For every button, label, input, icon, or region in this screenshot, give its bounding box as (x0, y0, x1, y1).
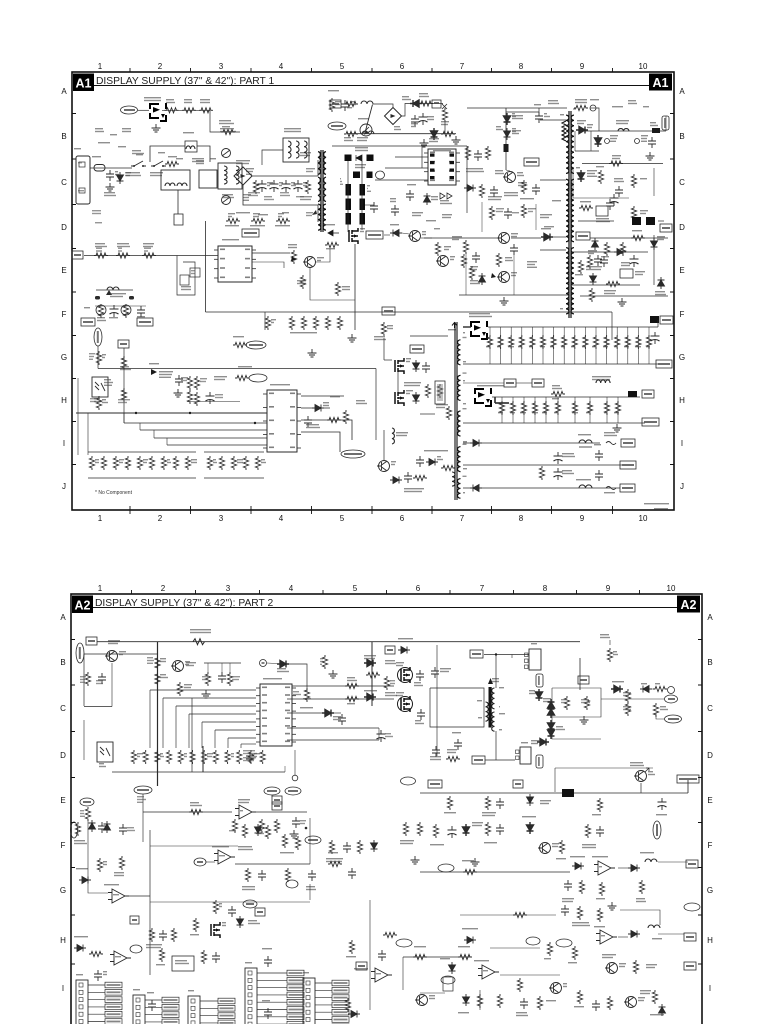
resistor R386 (458, 954, 472, 959)
wire (585, 130, 666, 132)
wire (611, 312, 613, 340)
ferrite bead FB801 (504, 144, 509, 152)
wire (202, 746, 204, 772)
wire (309, 884, 311, 900)
schematic frame A2 (71, 594, 702, 1024)
resistor (202, 750, 207, 764)
relay coil (186, 146, 195, 149)
diode D804b (431, 128, 438, 140)
LF803 coil a (224, 166, 227, 184)
svg-text:C: C (679, 178, 685, 187)
wire (317, 205, 319, 222)
capacitor C345 (159, 930, 167, 941)
resistor (437, 384, 442, 398)
circled resistor R631 (121, 305, 131, 315)
capacitor C631 (137, 306, 145, 317)
capacitor CB1 (411, 115, 419, 126)
transistor Q302 (107, 651, 118, 662)
MOSFET Q607 (395, 390, 404, 406)
svg-text:F: F (61, 841, 66, 850)
resistor (653, 703, 658, 717)
svg-text:G: G (707, 886, 713, 895)
op-amp IC701b (110, 951, 131, 965)
resistor (521, 180, 526, 194)
capacitor C622 (472, 252, 480, 263)
wire (555, 767, 653, 769)
ground (106, 183, 115, 191)
wire (397, 372, 399, 392)
bridge rectifier DB801 (234, 167, 252, 185)
regulator IC802 (596, 206, 608, 216)
wire (123, 413, 125, 423)
capacitor C661 (304, 416, 312, 427)
transformer T801 (321, 150, 323, 232)
resistor (185, 456, 190, 470)
node VCC-9N2 (246, 341, 266, 349)
resistor (625, 702, 630, 716)
node AB9F (438, 864, 454, 872)
inductor L605 (596, 380, 610, 383)
node PB2 (305, 836, 321, 844)
svg-text:F: F (708, 841, 713, 850)
wire (265, 311, 612, 313)
bus (590, 237, 668, 239)
node AB9F2 (684, 903, 700, 911)
capacitor C352 (308, 870, 316, 881)
resistor (572, 946, 577, 960)
capacitor C305 (218, 672, 226, 683)
svg-text:* No Component: * No Component (95, 490, 133, 496)
svg-text:3: 3 (219, 514, 224, 523)
inductor L603 (452, 472, 455, 486)
resistor (101, 456, 106, 470)
pad left (95, 296, 100, 300)
resistor (532, 401, 537, 415)
ground (202, 690, 211, 698)
diode L0s (640, 686, 652, 693)
bank wire (627, 327, 629, 364)
wire (579, 658, 581, 690)
ground (471, 858, 480, 866)
resistor (121, 356, 126, 370)
resistor R819b (344, 101, 358, 106)
capacitor C/BB (432, 746, 440, 757)
ground (452, 136, 461, 144)
resistor (300, 275, 305, 289)
wire (204, 451, 264, 453)
resistor (598, 170, 603, 184)
ground (308, 349, 317, 357)
wire (215, 729, 256, 731)
svg-text:E: E (60, 796, 65, 805)
title block A2 (72, 596, 93, 614)
wire (463, 464, 622, 466)
diode D307 (398, 647, 410, 654)
inductor LY5 coil (107, 287, 119, 290)
capacitor C625 (594, 255, 602, 266)
capacitor C830 (474, 150, 482, 161)
capacitor C92 (431, 667, 439, 678)
pin numbers T803 (463, 332, 465, 333)
node B (286, 880, 298, 888)
drain wire (354, 244, 356, 330)
transistor Q705 (626, 997, 637, 1008)
resistor (274, 819, 279, 833)
wire (488, 326, 658, 328)
resistor R805 (182, 108, 196, 113)
resistor R613 (276, 218, 290, 223)
optocoupler PC601 (92, 377, 108, 397)
pad (628, 391, 637, 397)
wire (201, 722, 203, 748)
wire (252, 175, 318, 177)
resistor (597, 908, 602, 922)
transistor Q706 (417, 995, 428, 1006)
svg-text:6: 6 (416, 584, 421, 593)
net B1.1 (410, 345, 424, 353)
wire (271, 795, 273, 797)
resistor (289, 316, 294, 330)
wire (210, 110, 240, 132)
C8.2 box (435, 381, 445, 404)
resistor (149, 928, 154, 942)
labels top-left block (95, 128, 103, 129)
diode D332 (449, 962, 456, 974)
bank wire (512, 397, 514, 423)
diode D806 (464, 185, 476, 192)
svg-text:7: 7 (460, 514, 465, 523)
diode D330 (628, 931, 640, 938)
zener ZD840 (595, 135, 602, 147)
net PA (562, 789, 574, 797)
wire (596, 108, 599, 131)
labels below ICE area (412, 212, 423, 213)
bank wire (501, 397, 503, 423)
bank wire (617, 397, 619, 423)
resistor (194, 376, 199, 390)
wire (252, 262, 284, 268)
resistor (593, 335, 598, 349)
C10b pins (516, 750, 520, 754)
node VCC-ON vertical (94, 328, 102, 346)
net BONE1 (137, 318, 153, 326)
wire (150, 901, 310, 903)
wire (365, 204, 374, 206)
node BB (376, 171, 385, 179)
capacitor C/2B3 (246, 752, 254, 763)
svg-text:I: I (709, 984, 711, 993)
switch SW1a (131, 161, 146, 166)
wire (420, 792, 688, 794)
wire (256, 811, 307, 813)
inductor L309 (579, 485, 592, 488)
svg-text:8: 8 (543, 584, 548, 593)
wire (430, 688, 484, 727)
ground (613, 424, 622, 432)
resistor (325, 316, 330, 330)
capacitor CG17 (264, 1008, 272, 1019)
resistor (260, 750, 265, 764)
svg-text:10: 10 (667, 584, 676, 593)
wire (163, 697, 256, 699)
bank wire (563, 327, 565, 364)
resistor (295, 836, 300, 850)
bottom circle (292, 775, 298, 781)
C10 pins (525, 653, 529, 657)
wire (665, 116, 667, 131)
resistor (190, 750, 195, 764)
net B1 (86, 637, 97, 645)
wire (97, 641, 580, 643)
svg-text:D: D (679, 223, 685, 232)
wire (310, 268, 355, 300)
resistor (125, 456, 130, 470)
net +B (118, 340, 129, 348)
wire (123, 348, 125, 423)
resistor (337, 316, 342, 330)
transistor Q810 (505, 172, 516, 183)
rotated labels (340, 178, 341, 179)
net G (130, 916, 139, 924)
resistor (119, 856, 124, 870)
svg-text:H: H (707, 936, 713, 945)
wire (687, 780, 689, 793)
wire (611, 688, 623, 690)
wire (485, 759, 515, 761)
capacitor C831 (490, 186, 498, 197)
svg-text:3: 3 (226, 584, 231, 593)
diode B4G2BB (364, 694, 376, 701)
thermistor TH801 (222, 149, 231, 158)
resistor R385 (413, 954, 427, 959)
arrow in Q204 (645, 768, 649, 772)
wire (202, 721, 256, 723)
wire (657, 320, 659, 327)
resistor (636, 335, 641, 349)
diode B4G16 (277, 661, 289, 668)
resistor R340b (189, 809, 203, 814)
resistor (178, 750, 183, 764)
capacitor C356 (596, 826, 604, 837)
wire (177, 190, 179, 214)
bank wire (574, 327, 576, 364)
wire (572, 284, 640, 286)
capacitor C623 (510, 244, 518, 255)
resistor (227, 672, 232, 686)
wire (214, 730, 216, 748)
resistor (577, 990, 582, 1004)
connector C10 top (529, 649, 541, 670)
transistor Q622 (410, 231, 421, 242)
wire (540, 422, 645, 424)
MOSFET CR204 (475, 388, 491, 406)
capacitor C/BY (377, 730, 386, 742)
resistor (539, 466, 544, 480)
net -12VA (620, 484, 635, 492)
box Q7b1 (172, 956, 194, 971)
node VL7 (328, 122, 346, 130)
test point circle (605, 139, 610, 144)
diode D628 (658, 277, 665, 289)
svg-text:4: 4 (289, 584, 294, 593)
wire (506, 170, 510, 171)
node 9REF3 (556, 939, 572, 947)
svg-text:G: G (679, 353, 685, 362)
bank wire (489, 327, 491, 364)
rail (578, 220, 614, 222)
resistor R621 (325, 242, 339, 247)
resistor (433, 824, 438, 838)
connector CN5_1 (188, 996, 200, 1024)
diode D640 (151, 369, 157, 375)
diode D606 (312, 405, 324, 412)
wire (347, 133, 456, 135)
net 21VB (660, 316, 673, 324)
wire (553, 236, 566, 238)
transformer T802 (569, 111, 571, 318)
wire (206, 311, 266, 313)
svg-text:8: 8 (519, 514, 524, 523)
wire (460, 914, 556, 916)
MOSFET Q304 circled (398, 668, 413, 683)
resistor R382 (513, 912, 527, 917)
capacitor C359 (520, 998, 528, 1009)
svg-text:3: 3 (219, 62, 224, 71)
node ACC-9N (76, 643, 84, 663)
MOSFET Q305 sym (401, 696, 410, 712)
svg-text:A: A (61, 87, 67, 96)
svg-text:D: D (707, 751, 713, 760)
transistor Q303 (173, 661, 184, 672)
diode BaG2H6 (611, 686, 623, 693)
node VREF2 (264, 787, 280, 795)
diode B4G2B (364, 660, 376, 667)
pin numbers (560, 114, 564, 115)
resistor (245, 868, 250, 882)
wire (153, 430, 155, 438)
svg-text:2: 2 (158, 62, 163, 71)
wire (207, 663, 209, 672)
resistor (143, 750, 148, 764)
svg-text:J: J (680, 482, 684, 491)
resistor (572, 335, 577, 349)
net MH3 (428, 780, 442, 788)
resistor (579, 880, 584, 894)
resistor (201, 950, 206, 964)
wire (150, 689, 256, 691)
diode D840 (576, 127, 588, 134)
resistor (469, 266, 474, 280)
wire (383, 338, 385, 360)
LY5 labels (106, 290, 112, 295)
wire (535, 204, 537, 230)
resistor (85, 672, 90, 686)
wire (287, 712, 322, 714)
resistor (487, 335, 492, 349)
wire (573, 168, 629, 198)
resistor (149, 456, 154, 470)
capacitor C819 (341, 100, 349, 111)
resistor (521, 204, 526, 218)
op-amp IC704b (371, 968, 392, 982)
wire (479, 990, 481, 1010)
node VCC-9N (341, 450, 365, 458)
wire (189, 713, 256, 715)
labels above mains row (136, 154, 143, 155)
capacitor C358 (561, 905, 569, 916)
resistor R821b (344, 131, 358, 136)
svg-text:2: 2 (161, 584, 166, 593)
wire (262, 150, 283, 165)
capacitor C298 (264, 956, 272, 967)
resistor (207, 456, 212, 470)
resistor (477, 994, 482, 1008)
net b2 (385, 646, 395, 654)
IC pin pads (430, 154, 435, 157)
diode D/B2 (536, 689, 543, 701)
svg-text:8: 8 (519, 62, 524, 71)
wire (229, 663, 231, 672)
resistor (253, 180, 258, 194)
wire (187, 401, 240, 403)
border oval (71, 822, 78, 838)
resistor (232, 819, 237, 833)
wire (490, 947, 540, 949)
diode D335 (348, 1011, 360, 1018)
coil CD-1.5uH (592, 376, 611, 377)
wire (228, 737, 256, 739)
capacitor CB2 (419, 113, 428, 125)
MOSFET Q801 (150, 103, 166, 121)
node C8 (243, 900, 257, 908)
svg-text:C: C (707, 704, 713, 713)
resistor R634b (606, 281, 620, 286)
diode D322 (79, 877, 91, 884)
wire (540, 119, 566, 121)
svg-text:B: B (61, 132, 66, 141)
resistor (447, 796, 452, 810)
diode D803b (410, 100, 422, 107)
wire (361, 161, 363, 230)
wire (111, 663, 113, 707)
schematic frame A1 (72, 72, 674, 510)
wire (500, 974, 560, 976)
resistor R807 (165, 161, 179, 166)
resistor (255, 456, 260, 470)
resistor (463, 240, 468, 254)
wire (658, 933, 684, 935)
resistor R601 (94, 253, 108, 258)
wire (511, 655, 513, 659)
wire (375, 369, 377, 441)
resistor (485, 796, 490, 810)
svg-text:6: 6 (400, 514, 405, 523)
resistor (465, 146, 470, 160)
wire (301, 420, 352, 440)
svg-text:E: E (679, 266, 684, 275)
resistor (237, 750, 242, 764)
rail (575, 150, 599, 152)
resistor (620, 242, 625, 256)
resistor W1 (366, 672, 380, 677)
resistor (285, 868, 290, 882)
wire (97, 346, 99, 369)
resistor (265, 316, 270, 330)
fuse F309 (606, 487, 616, 490)
resistor (547, 942, 552, 956)
diode D326 (463, 824, 470, 836)
wire (540, 249, 566, 251)
